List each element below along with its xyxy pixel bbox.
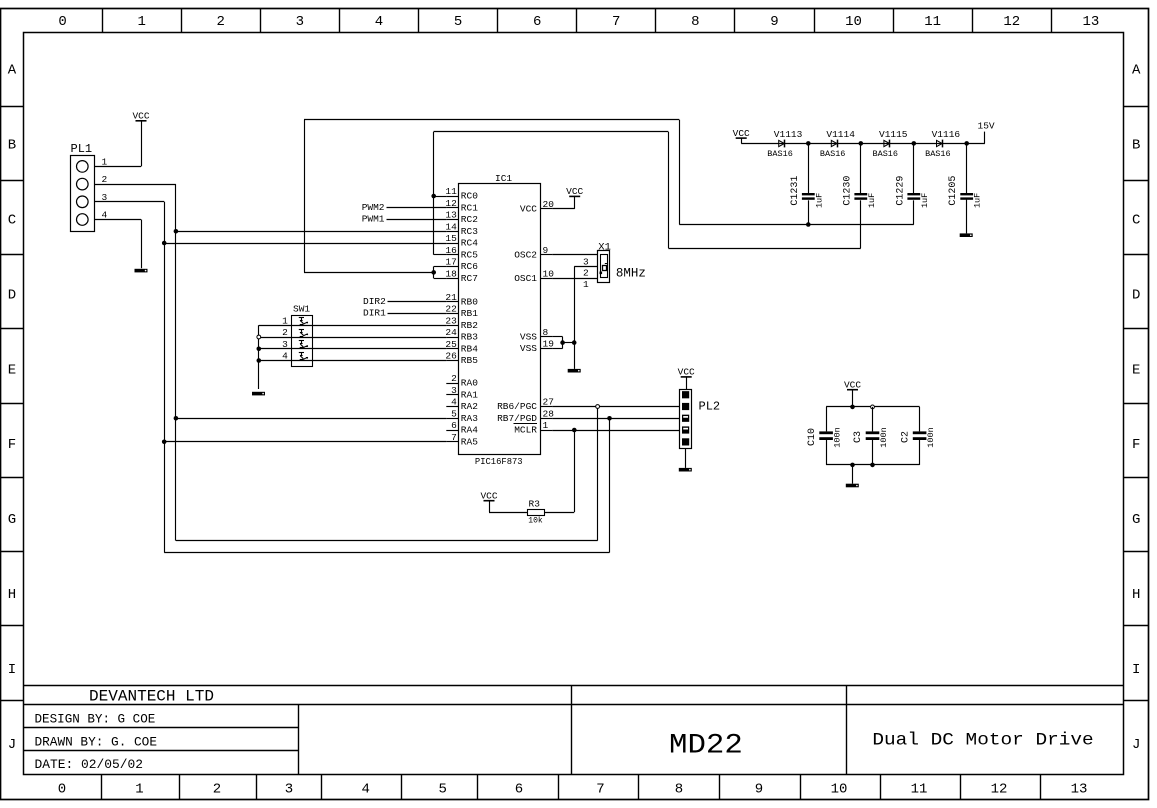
svg-text:V1116: V1116 xyxy=(932,129,961,140)
svg-text:0: 0 xyxy=(58,782,66,798)
svg-text:PWM1: PWM1 xyxy=(362,214,385,225)
svg-text:5: 5 xyxy=(438,782,446,798)
svg-text:RB6/PGC: RB6/PGC xyxy=(497,401,537,412)
svg-text:SW1: SW1 xyxy=(293,304,310,315)
resistor R3 10k xyxy=(528,498,545,525)
pin 26 RB5 xyxy=(445,351,478,367)
junction PL1.2/RC3 xyxy=(174,229,179,234)
ground at IC1 VSS xyxy=(568,369,581,373)
svg-text:6: 6 xyxy=(451,420,457,431)
svg-text:1uF: 1uF xyxy=(973,193,983,208)
junction PL1.3/RC4 xyxy=(162,241,167,246)
svg-text:2: 2 xyxy=(451,373,457,384)
svg-text:RC3: RC3 xyxy=(461,226,478,237)
svg-text:RB4: RB4 xyxy=(461,343,478,354)
svg-text:8: 8 xyxy=(543,327,549,338)
svg-text:14: 14 xyxy=(445,221,457,232)
svg-text:OSC1: OSC1 xyxy=(514,273,537,284)
svg-text:1: 1 xyxy=(543,420,549,431)
junction rail/C1230 xyxy=(859,141,864,146)
svg-text:DATE: 02/05/02: DATE: 02/05/02 xyxy=(35,758,144,772)
title block xyxy=(23,685,1123,774)
svg-text:RC2: RC2 xyxy=(461,214,478,225)
svg-text:12: 12 xyxy=(1003,14,1020,30)
net label DIR2 and wire to RB0 xyxy=(363,296,446,307)
svg-text:28: 28 xyxy=(543,408,555,419)
pin 16 RC5 xyxy=(445,245,478,261)
svg-text:DIR1: DIR1 xyxy=(363,308,386,319)
diode V1113 BAS16 xyxy=(767,129,802,159)
svg-text:9: 9 xyxy=(543,245,549,256)
svg-text:PL2: PL2 xyxy=(699,400,721,414)
svg-text:RC1: RC1 xyxy=(461,202,478,213)
svg-text:1: 1 xyxy=(135,782,143,798)
svg-text:C1230: C1230 xyxy=(842,176,853,206)
svg-text:1: 1 xyxy=(583,279,589,290)
wire X1.2 to ground net xyxy=(574,267,597,343)
svg-text:VSS: VSS xyxy=(520,343,537,354)
svg-text:R3: R3 xyxy=(529,498,541,509)
pin 21 RB0 xyxy=(445,292,478,308)
svg-text:RB1: RB1 xyxy=(461,308,478,319)
svg-text:10k: 10k xyxy=(528,516,543,525)
pin 10 OSC1 xyxy=(514,268,554,284)
wire OSC2 to X1.3 xyxy=(552,254,597,256)
svg-text:11: 11 xyxy=(924,14,941,30)
ground at PL2 xyxy=(679,468,692,472)
svg-text:VCC: VCC xyxy=(678,367,695,378)
svg-text:1uF: 1uF xyxy=(814,193,824,208)
svg-text:A: A xyxy=(8,63,17,79)
svg-text:13: 13 xyxy=(1071,782,1088,798)
svg-text:I: I xyxy=(8,662,16,678)
power VCC symbol at R3 xyxy=(480,491,497,502)
capacitor C10 100n xyxy=(807,407,843,465)
wire PL2 pin1 to VCC xyxy=(686,377,688,389)
svg-text:DEVANTECH LTD: DEVANTECH LTD xyxy=(89,688,214,706)
svg-text:VCC: VCC xyxy=(132,111,149,122)
svg-text:10: 10 xyxy=(543,268,555,279)
svg-text:100n: 100n xyxy=(879,427,889,447)
svg-text:D: D xyxy=(1132,287,1140,303)
svg-text:PIC16F873: PIC16F873 xyxy=(475,456,523,467)
crystal X1 8MHz xyxy=(583,241,646,290)
svg-text:BAS16: BAS16 xyxy=(767,149,793,159)
svg-text:23: 23 xyxy=(445,315,457,326)
svg-text:V1115: V1115 xyxy=(879,129,908,140)
pin 25 RB4 xyxy=(445,339,478,355)
svg-text:3: 3 xyxy=(285,782,293,798)
pin 19 VSS xyxy=(520,339,554,355)
pin 17 RC6 xyxy=(445,257,478,273)
ground at SW1 xyxy=(252,392,265,396)
svg-text:H: H xyxy=(1132,587,1140,603)
pin 24 RB3 xyxy=(445,327,478,343)
capacitor C3 100n xyxy=(853,407,889,465)
wire SW1 row 2 to RB3 xyxy=(259,337,447,339)
net label PWM2 and wire to RC1 xyxy=(362,202,447,213)
svg-text:RC0: RC0 xyxy=(461,191,478,202)
diode V1114 BAS16 xyxy=(820,129,855,159)
pin 11 RC0 xyxy=(445,186,478,202)
svg-text:RA5: RA5 xyxy=(461,436,478,447)
svg-text:RB0: RB0 xyxy=(461,296,478,307)
svg-text:2: 2 xyxy=(102,174,108,185)
svg-text:D: D xyxy=(8,287,16,303)
svg-text:F: F xyxy=(1132,437,1140,453)
svg-text:X1: X1 xyxy=(598,241,611,253)
svg-text:3: 3 xyxy=(296,14,304,30)
wire VCC to R3 xyxy=(489,501,527,513)
svg-text:I: I xyxy=(1132,662,1140,678)
svg-text:VCC: VCC xyxy=(480,491,497,502)
svg-text:10: 10 xyxy=(831,782,848,798)
junction PL1.2/RA3 xyxy=(174,416,179,421)
svg-text:VCC: VCC xyxy=(733,128,750,139)
svg-text:2: 2 xyxy=(213,782,221,798)
svg-text:5: 5 xyxy=(451,408,457,419)
svg-text:H: H xyxy=(8,587,16,603)
power VCC symbol at PL1 pin 1 xyxy=(132,111,149,122)
svg-text:VCC: VCC xyxy=(520,203,537,214)
svg-text:11: 11 xyxy=(911,782,928,798)
capacitor C1231 1uF xyxy=(790,143,825,208)
svg-text:IC1: IC1 xyxy=(495,173,512,184)
power VCC symbol at charge pump xyxy=(733,128,750,139)
pin 2 RA0 xyxy=(446,373,478,389)
junction ground drop xyxy=(850,463,855,468)
ground at PL1 pin 4 xyxy=(135,269,148,273)
wire PL1.3 net (to RC4, RA5, RB6/PGC) xyxy=(95,202,610,553)
svg-text:4: 4 xyxy=(361,782,369,798)
wire R3 to MCLR xyxy=(545,430,575,513)
svg-text:1uF: 1uF xyxy=(920,193,930,208)
ruler column numbers bottom xyxy=(58,782,1088,798)
svg-text:1: 1 xyxy=(282,315,288,326)
svg-text:G: G xyxy=(8,512,16,528)
svg-text:RA4: RA4 xyxy=(461,425,478,436)
junction RC6/RC7 tie xyxy=(431,270,436,275)
junction SW1 bus row3 xyxy=(257,346,262,351)
svg-text:C: C xyxy=(1132,213,1140,229)
pin 23 RB2 xyxy=(445,315,478,331)
svg-text:RC7: RC7 xyxy=(461,273,478,284)
wire decoupling bottom rail xyxy=(826,464,920,466)
svg-text:7: 7 xyxy=(451,432,457,443)
svg-text:RA1: RA1 xyxy=(461,389,478,400)
svg-text:2: 2 xyxy=(583,267,589,278)
svg-text:MD22: MD22 xyxy=(669,730,743,761)
svg-text:E: E xyxy=(8,362,16,378)
ground at decoupling caps xyxy=(846,484,859,488)
wire SW1 common bus to ground xyxy=(258,325,260,389)
svg-text:C2: C2 xyxy=(900,431,911,443)
svg-text:RC4: RC4 xyxy=(461,238,478,249)
wire PL2 pin5 to ground xyxy=(685,449,687,468)
svg-text:21: 21 xyxy=(445,292,457,303)
power 15V pin xyxy=(978,121,995,144)
svg-text:7: 7 xyxy=(596,782,604,798)
svg-text:6: 6 xyxy=(533,14,541,30)
svg-text:C1231: C1231 xyxy=(790,176,801,206)
svg-text:C10: C10 xyxy=(807,428,818,446)
junction SW1 bus row2 xyxy=(257,335,261,339)
pin 18 RC7 xyxy=(445,268,478,284)
wire decoupling top rail xyxy=(826,406,920,408)
switch SW1 (4x DIP) xyxy=(282,304,312,367)
wire SW1 row 4 to RB5 xyxy=(259,360,447,362)
junction VSS/X1.2 xyxy=(572,340,577,345)
svg-text:V1113: V1113 xyxy=(774,129,803,140)
net label PWM1 and wire to RC2 xyxy=(362,214,447,225)
pin 14 RC3 xyxy=(445,221,478,237)
svg-text:4: 4 xyxy=(102,210,108,221)
capacitor C1229 1uF xyxy=(895,143,930,208)
svg-text:DRAWN BY: G. COE: DRAWN BY: G. COE xyxy=(35,735,158,749)
svg-text:RB3: RB3 xyxy=(461,332,478,343)
wire charge pump rail xyxy=(741,138,985,143)
junction PGD riser xyxy=(607,416,612,421)
svg-text:19: 19 xyxy=(543,339,555,350)
net label DIR1 and wire to RB1 xyxy=(363,308,446,319)
junction VSS tie xyxy=(560,340,565,345)
svg-text:E: E xyxy=(1132,362,1140,378)
svg-text:RC6: RC6 xyxy=(461,261,478,272)
svg-text:0: 0 xyxy=(58,14,66,30)
svg-text:9: 9 xyxy=(755,782,763,798)
svg-text:BAS16: BAS16 xyxy=(820,149,846,159)
connector PL1 xyxy=(71,142,108,232)
svg-text:J: J xyxy=(8,737,16,753)
junction PL1.3/RA5 xyxy=(162,439,167,444)
svg-text:4: 4 xyxy=(282,351,288,362)
pin 4 RA2 xyxy=(446,397,478,413)
junction PGC riser (open) xyxy=(596,405,600,409)
wire RB7/PGD to PL2 xyxy=(552,418,679,420)
svg-text:MCLR: MCLR xyxy=(514,425,537,436)
junction rail/C1205 xyxy=(964,141,969,146)
pin 13 RC2 xyxy=(445,210,478,226)
svg-text:C1229: C1229 xyxy=(895,176,906,206)
svg-text:BAS16: BAS16 xyxy=(873,149,899,159)
svg-text:12: 12 xyxy=(991,782,1008,798)
wire PL1.2 net (to RC3, RA3, RB7/PGD) xyxy=(95,184,598,540)
ground at C1205 xyxy=(960,233,973,237)
junction C3 top (open) xyxy=(871,405,875,409)
svg-text:24: 24 xyxy=(445,327,457,338)
svg-text:C1205: C1205 xyxy=(948,176,959,206)
svg-text:B: B xyxy=(1132,138,1140,154)
svg-text:2: 2 xyxy=(282,327,288,338)
svg-text:18: 18 xyxy=(445,268,457,279)
svg-text:PWM2: PWM2 xyxy=(362,202,385,213)
svg-text:DESIGN BY: G COE: DESIGN BY: G COE xyxy=(35,712,156,726)
junction MCLR/R3 xyxy=(572,428,577,433)
svg-text:BAS16: BAS16 xyxy=(925,149,951,159)
svg-text:8: 8 xyxy=(691,14,699,30)
wire rail to ground xyxy=(852,465,854,484)
svg-text:100n: 100n xyxy=(926,427,936,447)
pin 20 VCC xyxy=(520,199,554,215)
ruler column numbers top xyxy=(58,14,1099,30)
svg-text:VSS: VSS xyxy=(520,331,537,342)
pin 1 MCLR xyxy=(514,420,553,436)
svg-text:8: 8 xyxy=(675,782,683,798)
junction C1231 bottom xyxy=(806,222,811,227)
power VCC symbol at PL2 xyxy=(678,367,695,378)
svg-text:4: 4 xyxy=(375,14,383,30)
svg-text:7: 7 xyxy=(612,14,620,30)
power VCC symbol at decoupling caps xyxy=(844,380,861,391)
junction rail/C1229 xyxy=(912,141,917,146)
pin 28 RB7/PGD xyxy=(497,408,554,424)
capacitor C2 100n xyxy=(900,407,936,465)
svg-text:RC5: RC5 xyxy=(461,249,478,260)
diode V1115 BAS16 xyxy=(873,129,908,159)
wire RB6/PGC to PL2 xyxy=(552,406,679,408)
svg-text:22: 22 xyxy=(445,304,457,315)
junction RC0 xyxy=(431,194,436,199)
junction SW1 bus row4 xyxy=(257,358,262,363)
svg-text:C3: C3 xyxy=(853,431,864,443)
svg-text:3: 3 xyxy=(583,256,589,267)
pin 8 VSS xyxy=(520,327,552,343)
svg-text:Dual DC Motor Drive: Dual DC Motor Drive xyxy=(872,730,1093,750)
svg-text:V1114: V1114 xyxy=(826,129,855,140)
svg-text:RA0: RA0 xyxy=(461,378,478,389)
svg-text:15: 15 xyxy=(445,233,457,244)
svg-text:G: G xyxy=(1132,512,1140,528)
svg-text:13: 13 xyxy=(445,210,457,221)
wire RC6/RC7 to C1231,C1229 bottoms (pump drive A) xyxy=(304,120,914,279)
diode V1116 BAS16 xyxy=(925,129,960,159)
svg-text:25: 25 xyxy=(445,339,457,350)
svg-text:6: 6 xyxy=(515,782,523,798)
svg-text:DIR2: DIR2 xyxy=(363,296,386,307)
svg-text:VCC: VCC xyxy=(844,380,861,391)
wire SW1 row 3 to RB4 xyxy=(259,348,447,350)
svg-text:RA3: RA3 xyxy=(461,413,478,424)
wire SW1 row 1 to RB2 xyxy=(259,325,447,327)
svg-text:16: 16 xyxy=(445,245,457,256)
IC IC1 PIC16F873 microcontroller xyxy=(459,173,541,467)
svg-text:8MHz: 8MHz xyxy=(616,266,646,280)
svg-text:17: 17 xyxy=(445,257,456,268)
svg-text:26: 26 xyxy=(445,351,457,362)
wire VCC to decoupling rail xyxy=(852,390,854,407)
pin 27 RB6/PGC xyxy=(497,397,554,413)
pin 9 OSC2 xyxy=(514,245,552,261)
pin 7 RA5 xyxy=(446,432,478,448)
svg-text:10: 10 xyxy=(845,14,862,30)
svg-text:A: A xyxy=(1132,63,1141,79)
svg-text:11: 11 xyxy=(445,186,457,197)
svg-text:3: 3 xyxy=(451,385,457,396)
svg-text:1uF: 1uF xyxy=(867,193,877,208)
wire PL1.4 to ground xyxy=(95,220,142,269)
svg-text:F: F xyxy=(8,437,16,453)
wire OSC1 to X1.1 xyxy=(552,278,597,280)
pin 3 RA1 xyxy=(446,385,478,401)
svg-text:PL1: PL1 xyxy=(71,142,93,156)
pin 15 RC4 xyxy=(445,233,478,249)
wire VCC pin 20 xyxy=(552,196,574,208)
wire VSS pins to ground xyxy=(552,337,574,369)
svg-text:VCC: VCC xyxy=(566,186,583,197)
svg-text:13: 13 xyxy=(1082,14,1099,30)
wire PL1.1 to VCC xyxy=(95,121,142,167)
wire MCLR to PL2 xyxy=(552,430,679,432)
junction rail/C1231 xyxy=(806,141,811,146)
pin 6 RA4 xyxy=(446,420,478,436)
svg-text:12: 12 xyxy=(445,198,457,209)
svg-text:RA2: RA2 xyxy=(461,401,478,412)
power VCC symbol at IC1 pin 20 xyxy=(566,186,583,197)
svg-text:OSC2: OSC2 xyxy=(514,249,537,260)
connector PL2 xyxy=(680,390,721,449)
junction C3 bottom xyxy=(870,463,875,468)
junction VCC/rail xyxy=(850,405,855,410)
svg-text:RB2: RB2 xyxy=(461,320,478,331)
svg-text:4: 4 xyxy=(451,397,457,408)
svg-text:J: J xyxy=(1132,737,1140,753)
svg-text:RB5: RB5 xyxy=(461,355,478,366)
svg-text:1: 1 xyxy=(137,14,145,30)
pin 22 RB1 xyxy=(445,304,478,320)
svg-text:15V: 15V xyxy=(978,121,995,132)
svg-text:1: 1 xyxy=(102,156,108,167)
capacitor C1205 1uF xyxy=(948,143,983,208)
svg-text:C: C xyxy=(8,213,16,229)
pin 5 RA3 xyxy=(446,408,478,424)
svg-text:100n: 100n xyxy=(833,427,843,447)
svg-text:27: 27 xyxy=(543,397,554,408)
svg-text:9: 9 xyxy=(770,14,778,30)
wire C1205 to ground xyxy=(966,200,968,234)
svg-text:5: 5 xyxy=(454,14,462,30)
svg-text:2: 2 xyxy=(217,14,225,30)
capacitor C1230 1uF xyxy=(842,143,877,208)
wire RC0/RC5 to C1230 bottom (pump drive B) xyxy=(434,132,861,255)
svg-text:B: B xyxy=(8,138,16,154)
pin 12 RC1 xyxy=(445,198,478,214)
svg-text:RB7/PGD: RB7/PGD xyxy=(497,413,537,424)
